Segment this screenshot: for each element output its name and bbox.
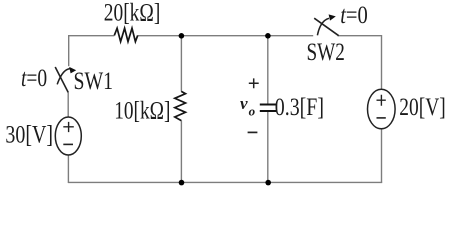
node dot bottom-right junction xyxy=(265,180,271,186)
svg-text:SW1: SW1 xyxy=(74,68,114,95)
source V2 20V ellipse xyxy=(368,89,396,129)
svg-text:t=0: t=0 xyxy=(21,65,47,92)
svg-text:20[kΩ]: 20[kΩ] xyxy=(104,0,161,27)
svg-text:o: o xyxy=(249,103,256,118)
wire middle vertical: top dot to resistor R2 xyxy=(180,35,182,92)
source V1 minus xyxy=(63,143,73,145)
wire top: resistor R1 to SW2 xyxy=(138,35,314,37)
node dot top-left junction xyxy=(179,33,185,39)
source V1 plus xyxy=(63,122,74,132)
svg-text:30[V]: 30[V] xyxy=(5,122,53,149)
svg-text:20[V]: 20[V] xyxy=(399,94,445,121)
svg-text:v: v xyxy=(240,94,248,113)
svg-text:10[kΩ]: 10[kΩ] xyxy=(114,97,170,124)
svg-text:0.3[F]: 0.3[F] xyxy=(275,94,324,121)
capacitor C1 plates xyxy=(260,104,276,106)
capacitor minus sign xyxy=(248,131,258,133)
switch SW1 arrow xyxy=(57,69,70,85)
wire capacitor branch lower xyxy=(267,112,269,183)
node dot bottom-left junction xyxy=(179,180,185,186)
wire left vertical: source V1 to bottom corner xyxy=(67,155,69,183)
switch SW2 blade xyxy=(314,18,339,36)
wire right vertical lower xyxy=(381,129,383,183)
source V1 30V ellipse xyxy=(55,117,81,155)
wire middle vertical: resistor R2 to bottom dot xyxy=(180,121,182,184)
wire bottom xyxy=(68,181,382,183)
capacitor plus sign xyxy=(249,78,259,88)
svg-text:SW2: SW2 xyxy=(307,39,345,66)
resistor R1 zigzag 20k xyxy=(114,28,137,41)
node dot top-right junction xyxy=(265,33,271,39)
svg-text:t=0: t=0 xyxy=(340,2,368,29)
switch SW1 blade xyxy=(55,67,68,92)
source V2 minus xyxy=(377,117,386,119)
wire top: left corner to resistor R1 xyxy=(69,35,115,37)
wire left vertical: SW1 to source V1 xyxy=(67,92,69,117)
wire left vertical: corner down to SW1 xyxy=(68,35,70,66)
resistor R2 zigzag 10k xyxy=(175,91,186,120)
source V2 plus xyxy=(377,95,386,106)
wire top-right: SW2 pivot to right corner xyxy=(338,35,381,37)
wire capacitor branch upper xyxy=(267,35,269,104)
switch SW2 arrow xyxy=(317,18,329,35)
wire right vertical upper xyxy=(381,35,383,89)
